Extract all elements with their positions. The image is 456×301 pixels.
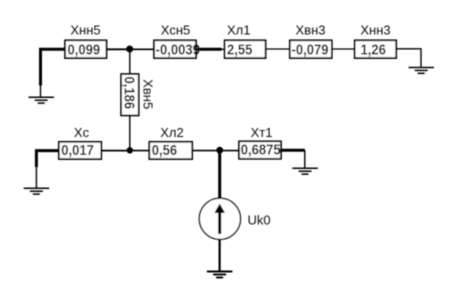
svg-text:Uk0: Uk0 <box>248 213 271 228</box>
current source Uk0 (circle) <box>199 198 240 239</box>
wire: G1 to Хнн5 <box>39 48 65 51</box>
resistor Хл1 <box>225 40 266 58</box>
svg-text:Хл2: Хл2 <box>160 125 184 140</box>
wire: node2 to Хл2 <box>130 150 150 152</box>
svg-text:Хт1: Хт1 <box>251 125 273 140</box>
svg-text:Хс: Хс <box>74 125 90 140</box>
wire: Хсн5 to Хл1 (thick net stub) <box>200 48 222 51</box>
wire: Хнн3 to ground G2 <box>396 49 421 68</box>
svg-text:Хсн5: Хсн5 <box>161 23 191 38</box>
source arrow (up) <box>218 210 221 234</box>
wire: node3 to Хт1 <box>220 150 239 152</box>
wire: node1 to Хсн5 <box>130 48 154 50</box>
wire: Хс to node2 <box>101 150 130 152</box>
svg-text:-0,0039: -0,0039 <box>156 41 200 58</box>
svg-text:Хвн5: Хвн5 <box>141 79 156 109</box>
resistor Хт1 <box>239 141 281 159</box>
wire: G3 thin lead <box>35 167 37 188</box>
resistor Хвн3 <box>290 40 332 58</box>
svg-text:0,56: 0,56 <box>152 141 178 158</box>
wire: G3 to Хс <box>35 149 59 152</box>
wire: Хсн5 to Хл1 (thin) <box>196 48 225 50</box>
wire: node1 to Хвн5 <box>129 49 131 74</box>
wire: Хвн3 to Хнн3 <box>332 48 355 50</box>
wire: source to ground G5 <box>219 239 221 271</box>
svg-text:0,186: 0,186 <box>121 77 138 110</box>
svg-text:0,017: 0,017 <box>61 141 94 158</box>
resistor Хнн3 <box>355 40 397 58</box>
resistor Хвн5 (vertical) <box>121 74 139 116</box>
svg-text:Хвн3: Хвн3 <box>296 23 326 38</box>
ground G5 (bottom) <box>207 272 233 278</box>
svg-text:2,55: 2,55 <box>227 41 253 58</box>
node 1 (junction dot) <box>126 46 133 53</box>
resistor Хл2 <box>149 142 192 159</box>
svg-text:-0,079: -0,079 <box>292 41 329 58</box>
wire: Хт1 to ground G4 (thick) <box>281 149 305 152</box>
ground G4 (right of Хт1) <box>292 168 318 174</box>
svg-text:Хнн5: Хнн5 <box>70 23 100 38</box>
ground G1 (top-left) <box>29 97 55 103</box>
svg-text:Хнн3: Хнн3 <box>360 23 390 38</box>
wire: node3 down to source Uk0 <box>218 150 221 198</box>
svg-text:0,099: 0,099 <box>68 41 101 58</box>
svg-text:0,6875: 0,6875 <box>241 141 281 158</box>
resistor Хсн5 <box>154 40 196 58</box>
svg-text:Хл1: Хл1 <box>227 23 251 38</box>
wire: ground G3 riser to row2 <box>35 151 38 167</box>
wire: Хл2 to node3 <box>192 150 220 152</box>
node 3 (junction dot) <box>216 147 223 154</box>
wire: G4 riser <box>304 150 306 168</box>
wire: Хвн5 to node2 <box>129 116 131 151</box>
svg-text:1,26: 1,26 <box>361 41 387 58</box>
resistor Хнн5 <box>65 40 107 58</box>
ground G2 (top-right) <box>409 68 435 74</box>
wire: Хл1 to Хвн3 <box>266 48 290 50</box>
ground G3 (mid-left) <box>24 188 50 194</box>
wire: ground G1 riser to row1 <box>39 49 42 85</box>
resistor Хс <box>59 142 102 159</box>
node 2 (junction dot) <box>127 147 133 153</box>
wire: G1 thin lead <box>40 86 42 98</box>
wire: Хнн5 to node1 <box>107 48 130 50</box>
